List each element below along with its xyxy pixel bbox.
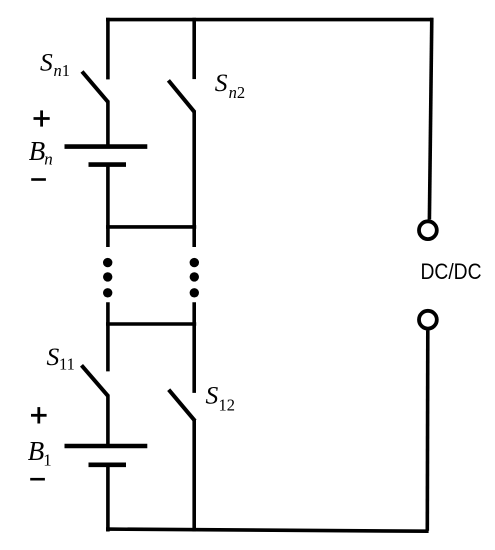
battery B1 minus sign <box>30 478 45 481</box>
battery Bn negative plate <box>89 162 127 167</box>
wire top bus to DC/DC positive terminal <box>429 18 431 220</box>
battery B1 negative plate <box>89 462 127 467</box>
svg-text:B1: B1 <box>28 436 52 469</box>
wire middle column stub through lower connector to switch S12 <box>192 302 196 393</box>
wire middle column top to switch Sn2 <box>192 18 196 79</box>
switch S12 blade <box>169 390 195 421</box>
wire left column top to switch Sn1 <box>106 18 110 80</box>
node dots middle column ellipsis <box>190 258 199 298</box>
wire switch S12 to bottom bus <box>192 420 196 532</box>
svg-text:DC/DC: DC/DC <box>421 259 482 284</box>
node dots left column ellipsis <box>103 258 112 298</box>
svg-text:Sn1: Sn1 <box>40 47 70 80</box>
wire lower connector node <box>106 322 196 326</box>
wire switch Sn2 down through upper connector <box>192 111 196 247</box>
battery Bn minus sign <box>31 178 46 181</box>
battery B1 positive plate <box>65 444 148 449</box>
switch Sn2 blade <box>168 80 194 112</box>
wire battery B1 negative to bottom bus <box>106 465 110 532</box>
svg-text:S12: S12 <box>206 381 236 415</box>
svg-text:Sn2: Sn2 <box>215 68 245 102</box>
wire battery Bn negative to upper connector stub <box>106 165 110 247</box>
svg-text:S11: S11 <box>47 342 75 373</box>
terminal circle DC/DC negative <box>419 311 437 329</box>
battery Bn plus sign <box>34 110 50 126</box>
battery B1 plus sign <box>31 407 47 423</box>
wire bottom bus <box>106 529 429 531</box>
wire upper connector node <box>106 225 196 229</box>
battery Bn positive plate <box>65 144 148 149</box>
wire left column stub between dots and lower connector <box>106 302 110 371</box>
wire switch S11 to battery B1 positive plate <box>106 395 110 446</box>
wire switch Sn1 to battery Bn positive plate <box>106 101 110 147</box>
wire top bus <box>106 18 433 22</box>
wire DC/DC negative terminal to bottom bus <box>425 330 429 530</box>
terminal circle DC/DC positive <box>419 221 437 239</box>
switch S11 blade <box>82 365 109 396</box>
svg-text:Bn: Bn <box>29 136 53 169</box>
switch Sn1 blade <box>82 72 108 103</box>
